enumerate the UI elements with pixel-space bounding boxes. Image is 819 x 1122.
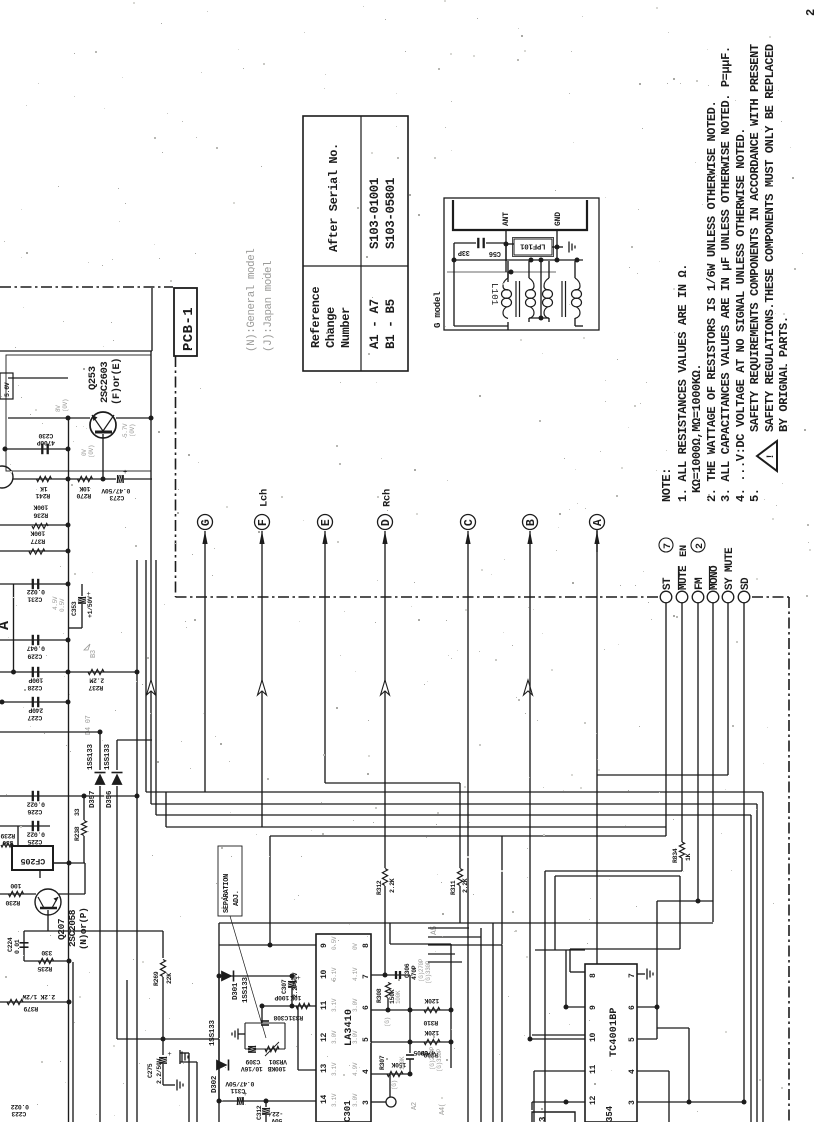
svg-text:-22/: -22/ [268,1110,283,1117]
svg-text:0.022: 0.022 [11,1103,29,1110]
wire [83,796,85,820]
svg-text:C231: C231 [27,596,42,603]
wire [116,786,118,1039]
wire [575,325,583,327]
ground (G box) [569,242,575,253]
wire [371,1101,386,1103]
connector MUTE [676,591,688,603]
wire [262,1005,316,1007]
wire [679,876,681,949]
svg-text:R377: R377 [30,538,45,545]
wire [151,803,757,805]
wire [0,550,68,552]
svg-text:C230: C230 [38,432,53,439]
junction [383,973,388,978]
svg-text:R307: R307 [379,1055,386,1070]
junction [386,1008,391,1013]
junction [66,416,71,421]
svg-text:SY MUTE: SY MUTE [724,547,736,590]
wire [565,281,567,317]
svg-text:(G)330P: (G)330P [425,960,432,984]
wire D [382,531,387,544]
junction [687,1100,692,1105]
junction [67,959,72,964]
L101 windings T1 [503,278,508,290]
wire [532,1034,597,1036]
wire [297,1006,299,1070]
junction [67,861,72,866]
junction [135,794,140,799]
connector D [378,515,393,530]
wire [371,1009,451,1011]
svg-text:1SS133: 1SS133 [87,743,95,770]
sub box [532,1112,575,1122]
junction [66,523,71,528]
wire [565,950,567,1007]
wire [453,243,455,260]
svg-text:ANT: ANT [502,212,511,226]
wire [371,974,410,976]
junction [66,700,71,705]
svg-text:9: 9 [589,1005,598,1010]
wire [117,1038,219,1040]
svg-text:(N):General model: (N):General model [246,249,258,352]
junction [696,899,701,904]
wire [146,791,763,793]
wire [83,836,85,863]
wire [166,826,666,828]
svg-text:C226: C226 [27,808,42,815]
junction [742,1100,747,1105]
svg-text:5.: 5. [748,488,762,502]
wire [162,931,164,958]
capacitor C273 0.47/50V [117,475,123,483]
wire [0,583,68,585]
svg-text:1K: 1K [685,853,692,861]
potentiometer VR301 100KB [265,1046,279,1051]
svg-text:After Serial No.: After Serial No. [327,143,341,252]
wire [515,281,517,317]
svg-text:C275: C275 [147,1063,154,1078]
wire [8,417,90,419]
wire [325,782,460,784]
svg-text:3.0V: 3.0V [352,998,359,1012]
junction [408,1040,413,1045]
svg-text:MUTE: MUTE [678,565,690,590]
junction [66,447,71,452]
svg-text:8: 8 [589,973,598,978]
wire [23,931,25,961]
wire [428,944,502,946]
svg-text:(F)or(E): (F)or(E) [111,358,123,405]
wire [8,377,68,379]
wire [162,1064,164,1085]
wire [743,603,745,1102]
svg-text:SD: SD [740,577,752,590]
svg-text:4: 4 [628,1069,637,1074]
svg-text:0.5V: 0.5V [331,936,338,950]
wire [324,531,326,552]
svg-text:(0V): (0V) [88,445,95,458]
wire C [465,531,470,544]
junction [529,258,534,263]
svg-text:+: + [243,1091,247,1099]
circled 2 [691,538,705,552]
junction [528,1037,533,1042]
wire [544,871,546,1122]
svg-text:3.1V: 3.1V [331,1093,338,1107]
wire [681,858,683,871]
svg-text:2.2K 1/2W: 2.2K 1/2W [22,993,55,1000]
SEPARATION ADJ box [218,846,242,916]
svg-text:R236: R236 [33,512,48,519]
wire [0,731,100,733]
svg-text:Reference: Reference [309,287,323,348]
svg-text:8: 8 [362,943,371,948]
wire [390,943,451,945]
junction [539,316,544,321]
svg-text:A4(: A4( [439,1103,447,1115]
wire [68,478,116,480]
svg-text:100K: 100K [33,504,48,511]
svg-text:EN: EN [678,545,690,557]
wire [727,603,729,775]
svg-text:R230: R230 [5,899,20,906]
wire [269,836,271,945]
svg-text:BY ORIGNAL PARTS.: BY ORIGNAL PARTS. [777,316,791,432]
wire [371,1073,410,1075]
wire [450,944,452,1068]
wire [204,552,206,792]
svg-text:4700P: 4700P [37,439,55,446]
svg-text:1SS133: 1SS133 [209,1019,217,1046]
svg-text:2.2K: 2.2K [389,878,396,893]
wire [505,230,507,261]
wire [492,923,494,1122]
wire [532,1101,585,1103]
ceramic filter CF205 [12,846,53,870]
wire [453,261,455,326]
junction [452,258,457,263]
wire [528,261,530,278]
transistor Q207 [35,889,61,915]
svg-text:R331: R331 [288,1014,303,1021]
wire [0,893,36,895]
connector F [255,515,270,530]
wire [204,531,206,552]
wire [501,836,503,1122]
svg-text:C56: C56 [489,249,501,257]
svg-text:100P: 100P [274,994,289,1001]
junction [449,1040,454,1045]
svg-text:120K: 120K [424,1029,439,1036]
junction [66,582,71,587]
svg-text:CF205: CF205 [21,856,46,866]
wire [529,317,549,319]
wire [529,531,531,552]
svg-text:2.2/50V: 2.2/50V [156,1058,163,1084]
svg-text:C224: C224 [7,937,14,952]
svg-text:7: 7 [628,973,637,978]
svg-text:0.022: 0.022 [27,831,45,838]
svg-text:10: 10 [320,969,329,979]
svg-text:D: D [380,519,393,526]
PCB-1 label box [174,288,197,356]
svg-text:FM: FM [694,577,706,590]
svg-text:C309: C309 [245,1058,260,1065]
resistor R308 150K [385,983,390,998]
wire [531,1102,533,1110]
junction [217,974,222,979]
junction [268,943,273,948]
svg-text:4.9V: 4.9V [352,1062,359,1076]
wire [81,604,83,628]
svg-text:2: 2 [804,9,818,16]
wire [371,1041,451,1043]
svg-text:Q207: Q207 [56,918,67,940]
IC TC4001BP [585,964,637,1122]
wire [665,603,667,836]
svg-text:Lch: Lch [259,489,271,507]
svg-text:13: 13 [320,1063,329,1073]
connector E [318,515,333,530]
wire [84,863,86,894]
revision table [303,116,408,371]
svg-text:150K: 150K [399,1056,406,1070]
svg-text:L101: L101 [489,283,499,305]
svg-text:4: 4 [362,1069,371,1074]
wire [428,927,469,929]
LA3410 pin7 net / R312 [382,869,387,886]
svg-text:0V: 0V [81,449,88,456]
wire [561,281,563,317]
svg-text:0.47/50V: 0.47/50V [225,1080,254,1087]
svg-text:D301: D301 [232,982,240,1000]
svg-text:SAFETY REGULATIONS.THESE COMPO: SAFETY REGULATIONS.THESE COMPONENTS MUST… [763,44,777,432]
junction [260,1004,265,1009]
junction [655,1005,660,1010]
junction [408,1008,413,1013]
svg-text:2.2K: 2.2K [462,878,469,893]
junction [3,447,8,452]
PCB-1 border dash-dot top [0,286,173,288]
svg-text:0.022: 0.022 [27,588,45,595]
wire [81,584,83,596]
wire [238,1033,245,1035]
wire [467,552,469,1122]
wire [459,886,461,923]
wire [102,434,104,479]
wire [53,862,69,864]
wire [545,870,682,872]
svg-text:(G): (G) [384,1017,391,1027]
svg-text:C353: C353 [71,601,78,616]
svg-text:SEPARATION: SEPARATION [223,874,231,913]
svg-text:2. THE WATTAGE OF RESISTORS IS: 2. THE WATTAGE OF RESISTORS IS 1/6W UNLE… [705,101,719,502]
svg-text:0.022: 0.022 [27,801,45,808]
wire [298,1069,316,1071]
svg-text:!: ! [766,453,777,459]
wire [145,560,147,792]
svg-text:100P: 100P [28,677,43,684]
junction [161,1037,166,1042]
wire [596,530,598,775]
svg-text:C228: C228 [27,684,42,691]
junction [575,258,580,263]
svg-text:+1/50V: +1/50V [87,596,94,618]
svg-text:12: 12 [320,1032,329,1042]
wire [697,603,699,901]
wire [387,998,389,1010]
wire [270,835,666,837]
svg-text:A5: A5 [430,925,439,935]
wire [555,875,680,877]
wire [324,552,326,783]
svg-text:C307: C307 [281,979,288,994]
wire [5,448,69,450]
wire [117,739,152,741]
svg-text:(0V): (0V) [129,424,136,437]
svg-text:MONO: MONO [709,565,721,590]
wire [156,814,751,816]
wire [569,949,571,972]
svg-text:R238: R238 [74,826,81,841]
junction [408,1072,413,1077]
svg-text:ST: ST [662,577,674,590]
svg-text:(G)330P: (G)330P [436,1048,443,1072]
wire [596,531,598,552]
wire [548,261,550,278]
svg-text:10K: 10K [79,485,90,492]
wire [454,242,476,244]
ground left [182,1052,188,1063]
svg-text:+: + [123,469,127,477]
wire [428,961,462,963]
wire [506,243,514,245]
wire [163,1084,175,1086]
wire [218,976,220,1101]
svg-text:4.1V: 4.1V [352,967,359,981]
wire [24,960,69,962]
wire [467,531,469,552]
wire B [527,531,532,544]
wire [529,552,531,1039]
svg-text:6: 6 [628,1005,637,1010]
wire [556,230,558,261]
wire [409,1059,411,1074]
svg-text:33P: 33P [458,248,470,256]
wire [0,639,68,641]
wire [13,584,15,672]
svg-text:R235: R235 [37,965,52,972]
svg-text:0V: 0V [352,943,359,950]
wire [519,281,521,317]
svg-text:0.01: 0.01 [14,939,21,954]
wire [24,930,48,932]
svg-text:C312: C312 [256,1105,263,1120]
svg-text:470P: 470P [411,965,418,980]
svg-text:KΩ=1000Ω,MΩ=1000KΩ.: KΩ=1000Ω,MΩ=1000KΩ. [690,364,704,493]
antenna terminal plate [453,200,587,230]
svg-text:TC4001BP: TC4001BP [609,1007,620,1057]
svg-text:D302: D302 [211,1075,219,1093]
svg-text:5.6V: 5.6V [4,382,11,397]
wire [0,524,68,526]
svg-text:11: 11 [589,1064,598,1074]
svg-text:F: F [257,519,270,526]
wire [656,901,658,1010]
svg-text:R241: R241 [35,492,50,499]
wire [384,886,386,975]
svg-text:4.5V: 4.5V [52,596,59,610]
wire [528,318,530,322]
wire [566,1006,585,1008]
wire [219,975,292,977]
wire [657,1027,689,1029]
wire [72,962,74,1122]
wire [540,261,542,318]
svg-text:(J):Japan model: (J):Japan model [263,261,275,352]
svg-text:8V: 8V [55,405,62,412]
svg-text:100: 100 [10,882,21,889]
connector ST [660,591,672,603]
svg-text:10/16V: 10/16V [241,1065,263,1072]
wire [507,261,509,278]
svg-text:100KB: 100KB [268,1065,286,1072]
svg-text:(0V): (0V) [62,399,69,412]
wire [570,971,585,973]
wire [762,792,764,1122]
wire F [259,531,264,544]
svg-text:0.5V: 0.5V [59,598,66,612]
connector MONO [707,591,719,603]
svg-text:7: 7 [362,974,371,979]
svg-text:A1 - A7: A1 - A7 [368,299,382,349]
wire [409,975,411,1053]
svg-text:0.47/50V: 0.47/50V [101,487,130,494]
svg-text:(G): (G) [391,1080,398,1090]
junction [0,700,5,705]
svg-text:E: E [320,519,333,526]
svg-text:LPF101: LPF101 [520,242,546,250]
svg-text:3. ALL CAPACITANCES VALUES ARE: 3. ALL CAPACITANCES VALUES ARE IN µF UNL… [719,46,733,502]
connector A [590,515,605,530]
wire [384,531,386,552]
svg-text:R239: R239 [0,832,15,839]
svg-text:22K: 22K [166,973,173,984]
svg-text:6: 6 [362,1005,371,1010]
svg-text:Rch: Rch [382,489,394,507]
wire [530,1038,585,1040]
svg-text:G: G [200,519,213,526]
wire [454,259,583,261]
svg-text:100K: 100K [395,990,402,1004]
wire [261,1006,263,1023]
svg-text:5.7V: 5.7V [122,423,129,437]
svg-text:120K: 120K [424,997,439,1004]
svg-text:D357: D357 [89,791,97,808]
junction [149,416,154,421]
svg-text:7: 7 [663,543,674,549]
svg-text:C308: C308 [273,1014,288,1021]
wire [136,560,138,1122]
PCB-1 border dash-dot left/bottom [175,356,177,597]
svg-text:S103-05801: S103-05801 [384,178,398,249]
svg-text:3: 3 [628,1100,637,1105]
junction [555,258,560,263]
wire [657,900,713,902]
wire [188,1053,190,1122]
